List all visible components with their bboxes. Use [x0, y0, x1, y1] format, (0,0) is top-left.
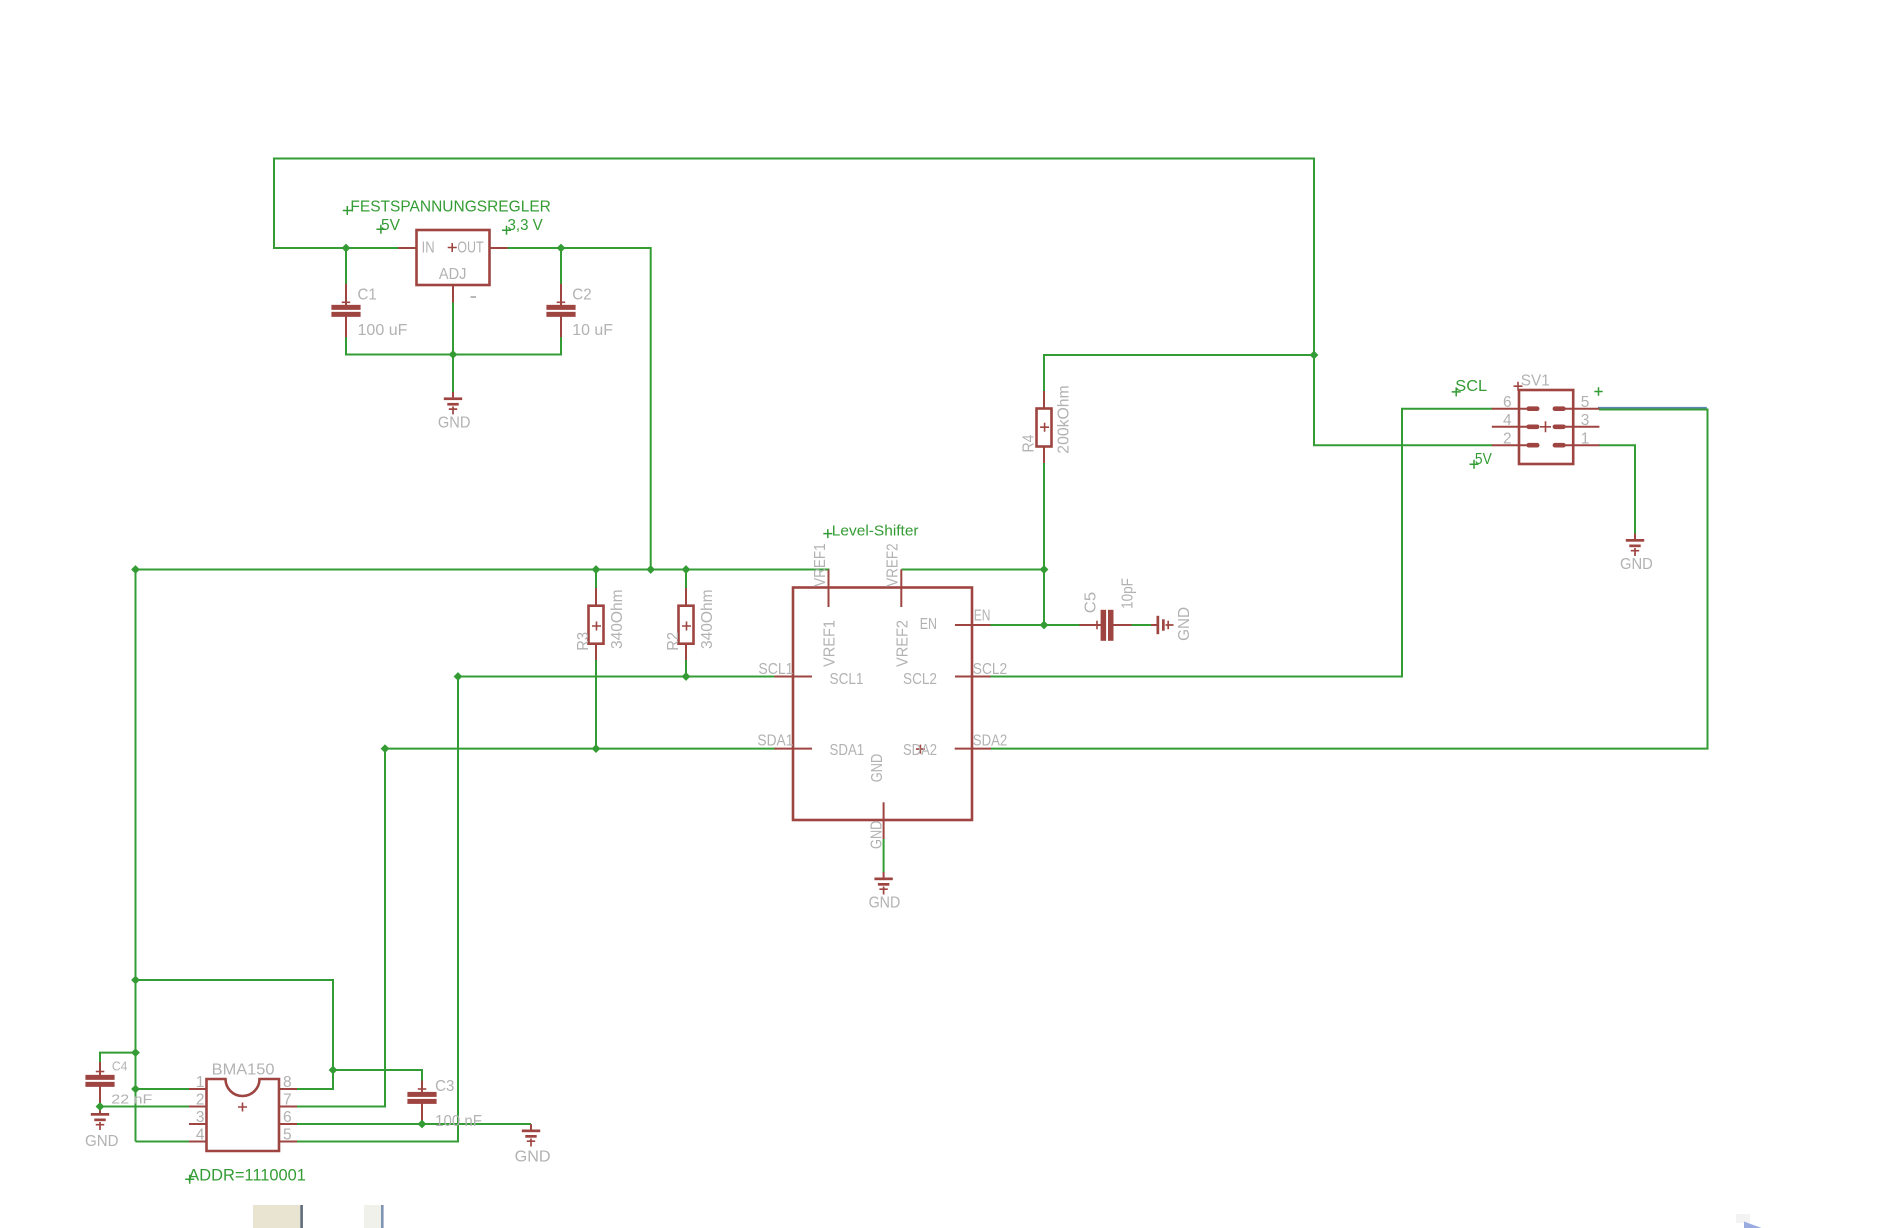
BMA150 pin 5 stub — [279, 1141, 297, 1143]
wire C1 top branch — [345, 248, 347, 285]
wire R4 bottom to EN node — [1043, 462, 1045, 626]
svg-text:R2: R2 — [665, 632, 682, 651]
level-shifter pin SDA2 — [955, 748, 991, 750]
wire C5 to GND — [1131, 624, 1157, 626]
svg-text:C1: C1 — [358, 286, 377, 303]
wire 3.3V top rail — [273, 159, 1493, 446]
wire R3 top stub green — [595, 570, 597, 590]
svg-text:GND: GND — [868, 821, 885, 849]
SV1 pads — [1526, 406, 1565, 447]
svg-text:ADJ: ADJ — [439, 266, 467, 283]
svg-text:VREF2: VREF2 — [885, 543, 902, 586]
svg-text:GND: GND — [869, 895, 901, 912]
svg-text:2: 2 — [196, 1092, 205, 1109]
BMA150 pin 3 stub — [189, 1123, 207, 1125]
bus blue overlay on pin5 wire — [1598, 407, 1707, 409]
wire C2 top branch — [560, 248, 562, 284]
svg-text:3: 3 — [1581, 412, 1590, 429]
level-shifter pin EN — [955, 624, 991, 626]
svg-text:GND: GND — [869, 754, 886, 782]
BMA150 IC box with notch — [207, 1079, 280, 1151]
wire left vertical to BMA pin8 top route — [136, 980, 334, 1089]
ground right of C5 (rotated) — [1151, 616, 1173, 634]
svg-text:4: 4 — [196, 1127, 205, 1144]
svg-text:Level-Shifter: Level-Shifter — [832, 522, 919, 539]
svg-text:SDA1: SDA1 — [757, 733, 793, 750]
svg-text:6: 6 — [283, 1109, 292, 1126]
regulator pin IN — [398, 247, 417, 249]
svg-text:6: 6 — [1503, 394, 1512, 411]
resistor R3 — [589, 588, 604, 660]
wire regulator GND drop — [452, 355, 454, 393]
svg-text:C4: C4 — [112, 1058, 128, 1073]
svg-text:340Ohm: 340Ohm — [699, 589, 716, 649]
svg-text:1: 1 — [1581, 431, 1590, 448]
svg-text:FESTSPANNUNGSREGLER: FESTSPANNUNGSREGLER — [350, 199, 551, 216]
level-shifter pin SCL1 — [774, 676, 812, 678]
svg-text:2: 2 — [1503, 431, 1512, 448]
wire SCL1 line — [458, 676, 775, 678]
wire pin8 horizontal — [297, 1088, 335, 1090]
BMA150 pin 2 stub — [189, 1106, 207, 1108]
svg-text:OUT: OUT — [457, 240, 484, 257]
taskbar fragment 2 — [364, 1205, 381, 1228]
svg-text:5: 5 — [283, 1127, 292, 1144]
wire BMA pin2 from C4 node — [100, 1106, 190, 1108]
svg-text:EN: EN — [974, 607, 991, 624]
SV1 pin 4 stub — [1492, 426, 1528, 428]
capacitor C2 — [546, 284, 575, 337]
svg-text:ADDR=1110001: ADDR=1110001 — [188, 1165, 306, 1184]
wire BMA pin4 — [136, 1141, 190, 1143]
svg-text:SCL1: SCL1 — [830, 671, 864, 688]
svg-text:GND: GND — [1620, 556, 1653, 573]
capacitor C3 — [407, 1081, 436, 1125]
capacitor C5 — [1080, 610, 1132, 641]
svg-text:C2: C2 — [572, 286, 591, 303]
svg-text:IN: IN — [422, 240, 435, 257]
BMA150 origin cross — [238, 1103, 247, 1112]
svg-text:4: 4 — [1503, 412, 1512, 429]
svg-text:VREF1: VREF1 — [812, 543, 829, 586]
wire bottom of C1/C2 — [346, 337, 561, 355]
BMA150 pin 8 stub — [279, 1088, 297, 1090]
wire 3.3V horizontal rail to VREF1 — [135, 569, 830, 571]
capacitor C4 — [85, 1062, 114, 1107]
cursor artifact bottom right — [1736, 1214, 1750, 1223]
wire R2 top stub green — [685, 570, 687, 590]
regulator origin cross — [448, 243, 457, 252]
regulator pin OUT — [490, 247, 508, 249]
wire SDA1 vertical down to BMA pin7 — [297, 749, 386, 1107]
SV1 origin cross — [1514, 382, 1523, 391]
svg-text:22 nF: 22 nF — [111, 1091, 152, 1106]
svg-text:SDA2: SDA2 — [973, 733, 1007, 750]
level-shifter pin VREF2 — [900, 570, 902, 608]
wire R3 bottom to SDA1 — [595, 659, 597, 750]
svg-text:100 uF: 100 uF — [358, 322, 408, 339]
svg-text:VREF2: VREF2 — [894, 620, 911, 667]
SV1 pin 3 stub — [1564, 426, 1599, 428]
wire BMA pin1 — [136, 1088, 190, 1090]
SV1 pin 6 stub — [1492, 408, 1528, 410]
SV1 pin 5 stub — [1564, 408, 1599, 410]
svg-text:3,3 V: 3,3 V — [508, 217, 544, 234]
svg-text:3: 3 — [196, 1109, 205, 1126]
svg-text:1: 1 — [196, 1074, 205, 1091]
svg-text:SCL1: SCL1 — [758, 661, 793, 678]
wire ADJ down — [452, 302, 454, 355]
svg-text:100 nF: 100 nF — [435, 1113, 482, 1130]
level-shifter pin VREF1 — [828, 570, 830, 608]
resistor R4 — [1037, 391, 1052, 463]
SV1 pin 2 stub — [1492, 444, 1528, 446]
ground right of BMA pin6 wire — [522, 1124, 540, 1146]
level-shifter U1 box — [793, 588, 972, 821]
wire C4 top branch — [100, 1053, 137, 1063]
regulator pin name minus — [471, 296, 477, 298]
BMA150 pin 7 stub — [279, 1106, 297, 1108]
wire level-shifter GND pin drop — [883, 839, 885, 873]
svg-text:5: 5 — [1581, 394, 1590, 411]
svg-text:5V: 5V — [1475, 451, 1492, 468]
taskbar fragment 1 — [253, 1205, 303, 1228]
wire VREF2 to R4 node — [901, 569, 1045, 571]
level-shifter pin GND — [883, 802, 885, 839]
svg-text:7: 7 — [283, 1092, 292, 1109]
wire 5V left drop to regulator IN — [274, 158, 399, 249]
svg-text:8: 8 — [283, 1074, 292, 1091]
svg-text:VREF1: VREF1 — [822, 620, 839, 667]
svg-text:SDA2: SDA2 — [903, 742, 937, 759]
svg-text:10pF: 10pF — [1120, 578, 1137, 609]
svg-text:GND: GND — [515, 1149, 551, 1166]
regulator pin ADJ — [452, 284, 454, 303]
svg-text:EN: EN — [920, 616, 937, 633]
wire EN to C5 — [990, 624, 1081, 626]
wire SDA1 line — [385, 748, 777, 750]
svg-text:10 uF: 10 uF — [572, 322, 613, 339]
svg-text:R4: R4 — [1020, 435, 1037, 453]
svg-text:C5: C5 — [1082, 592, 1099, 613]
svg-text:C3: C3 — [435, 1078, 454, 1095]
svg-text:SCL: SCL — [1455, 378, 1487, 395]
ground below SV1 — [1626, 534, 1644, 556]
BMA150 pin 4 stub — [189, 1141, 207, 1143]
SV1 pin 1 stub — [1564, 444, 1599, 446]
net cross near SV1 pin5 — [1594, 387, 1602, 395]
SV1 center cross — [1540, 421, 1551, 432]
svg-text:BMA150: BMA150 — [212, 1061, 275, 1078]
svg-text:SDA1: SDA1 — [830, 742, 865, 759]
regulator IC1 box — [417, 230, 490, 285]
svg-text:SCL2: SCL2 — [903, 671, 937, 688]
wire SV1 pin1 to GND — [1599, 445, 1635, 534]
wire SCL1 vertical down to BMA pin5 — [297, 677, 459, 1142]
BMA150 pin 6 stub — [279, 1123, 297, 1125]
wire left long vertical — [135, 570, 137, 1142]
svg-text:R3: R3 — [575, 632, 592, 651]
level-shifter origin cross on SDA2 — [916, 745, 925, 754]
wire C3 branch — [333, 1070, 422, 1081]
wire R2 bottom to SCL1 — [685, 659, 687, 678]
svg-text:GND: GND — [438, 415, 471, 432]
wire R4 top to rail corner — [1044, 355, 1315, 392]
resistor R2 — [679, 588, 694, 660]
svg-text:340Ohm: 340Ohm — [609, 589, 626, 649]
wire SCL2 line to SV1 pin6 — [991, 409, 1493, 677]
ground below C4 — [91, 1108, 109, 1130]
wire OUT to corner — [507, 248, 651, 571]
ground below regulator — [444, 392, 462, 414]
connector SV1 box — [1519, 390, 1573, 464]
level-shifter pin SDA1 — [774, 748, 812, 750]
svg-text:GND: GND — [1176, 607, 1193, 641]
svg-text:SV1: SV1 — [1521, 373, 1550, 390]
wire BMA pin6 to GND — [297, 1123, 532, 1125]
svg-text:GND: GND — [85, 1133, 119, 1150]
wire SDA2 line to SV1 pin5 — [991, 410, 1708, 749]
svg-text:SCL2: SCL2 — [973, 661, 1007, 678]
svg-text:200kOhm: 200kOhm — [1055, 385, 1072, 453]
ground below level-shifter — [874, 872, 892, 894]
capacitor C1 — [331, 284, 360, 337]
level-shifter pin SCL2 — [955, 676, 991, 678]
BMA150 pin 1 stub — [189, 1088, 207, 1090]
svg-text:5V: 5V — [381, 217, 400, 234]
